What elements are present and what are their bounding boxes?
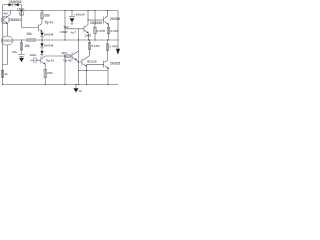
svg-text:47R: 47R bbox=[47, 71, 53, 75]
resistor R8 0.47R bbox=[108, 25, 110, 40]
resistor R4 10k bbox=[21, 40, 23, 54]
transistor Q7 2N3055 bbox=[104, 16, 108, 24]
resistor R3 560 bbox=[41, 11, 43, 24]
svg-text:0.47R: 0.47R bbox=[109, 44, 118, 48]
svg-text:4u7: 4u7 bbox=[71, 30, 76, 34]
transistor Q2 ellipse bbox=[1, 36, 13, 45]
wire Q9 emitter down bbox=[107, 69, 109, 85]
wire right border bbox=[117, 11, 119, 50]
wire base feed H2 bbox=[22, 27, 39, 29]
svg-text:2N3055: 2N3055 bbox=[90, 21, 102, 25]
wire Q2 bottom lead bbox=[3, 45, 8, 65]
wire x21.5 drop bbox=[21, 5, 23, 28]
diode D5 bbox=[40, 51, 43, 54]
wire bootstrap y28.8 bbox=[65, 28, 84, 30]
wire Q8 emitter down bbox=[86, 66, 88, 84]
transistor Q4 Tip 41 bbox=[41, 56, 45, 64]
resistor R5 47R bbox=[44, 65, 46, 85]
capacitor C1 box bbox=[20, 12, 24, 15]
wire y70.5 link bbox=[79, 70, 109, 72]
svg-text:4k7: 4k7 bbox=[3, 12, 8, 16]
transistor Q3 TIP41 bbox=[39, 23, 42, 31]
ground G2 0v bbox=[75, 85, 77, 89]
wire left border bbox=[2, 5, 4, 85]
wire VAS emitter bbox=[41, 31, 43, 34]
wire x65 lower bbox=[64, 56, 66, 85]
svg-text:1k: 1k bbox=[4, 72, 8, 76]
svg-text:BD139: BD139 bbox=[87, 60, 96, 64]
wire diode loop bbox=[3, 4, 22, 6]
transistor Q8 bbox=[79, 56, 90, 66]
wire Q9 base feed bbox=[87, 63, 104, 65]
resistor R11 0.47R bbox=[107, 40, 109, 60]
diode D1 bbox=[9, 3, 13, 6]
svg-text:1N4148: 1N4148 bbox=[44, 43, 54, 47]
diode D4 bbox=[40, 43, 43, 46]
svg-text:Tip 42: Tip 42 bbox=[63, 59, 72, 63]
svg-text:Tip 41: Tip 41 bbox=[46, 58, 55, 62]
capacitor C6 100uF bbox=[71, 11, 73, 17]
transistor Q9 2N3055 bbox=[104, 60, 108, 68]
capacitor C2 47u bbox=[18, 53, 25, 55]
wire bottom rail bbox=[3, 84, 119, 86]
svg-text:100uF: 100uF bbox=[76, 13, 85, 17]
resistor R10 0.47R bbox=[89, 40, 91, 56]
resistor R2 10k on mid rail bbox=[27, 39, 35, 41]
ground G1 bbox=[21, 57, 23, 58]
transistor Q6 bbox=[84, 25, 88, 33]
resistor R12 1k bbox=[2, 70, 4, 78]
node junction dots bbox=[21, 10, 22, 11]
transistor Q1 2N5551 bbox=[1, 16, 9, 24]
svg-text:100u: 100u bbox=[29, 53, 36, 57]
transistor Q5 Tip 42 bbox=[72, 51, 78, 60]
svg-text:100R: 100R bbox=[84, 33, 91, 37]
svg-text:2N3055: 2N3055 bbox=[110, 61, 120, 65]
svg-text:0.47R: 0.47R bbox=[110, 29, 119, 33]
wire x78.5 spine bbox=[78, 29, 80, 85]
svg-text:10k: 10k bbox=[26, 32, 32, 36]
wire output mid rail bbox=[13, 39, 118, 41]
wire x65 upper bbox=[64, 11, 66, 41]
svg-text:0.47R: 0.47R bbox=[97, 29, 106, 33]
wire Q7 base feed bbox=[88, 19, 104, 21]
diode D3 bbox=[40, 33, 43, 36]
svg-text:100R: 100R bbox=[60, 30, 68, 34]
output terminal arrow bbox=[116, 49, 120, 55]
diode D2 bbox=[15, 3, 19, 6]
wire top supply rail bbox=[3, 10, 119, 12]
wire Q1 emitter down bbox=[7, 24, 9, 36]
svg-text:1k4: 1k4 bbox=[63, 25, 68, 29]
resistor R9 0.47R bbox=[94, 11, 96, 41]
svg-text:2N3055: 2N3055 bbox=[2, 39, 13, 43]
svg-text:0v: 0v bbox=[79, 89, 83, 93]
svg-text:2N3055: 2N3055 bbox=[110, 17, 120, 21]
svg-text:1N4148: 1N4148 bbox=[44, 33, 54, 37]
svg-text:47u: 47u bbox=[12, 50, 17, 54]
svg-text:10k: 10k bbox=[24, 44, 30, 48]
svg-text:0.47R: 0.47R bbox=[91, 44, 100, 48]
svg-text:4R7: 4R7 bbox=[62, 51, 68, 55]
svg-text:560: 560 bbox=[44, 13, 50, 17]
svg-text:Tip 41: Tip 41 bbox=[44, 21, 53, 25]
resistor R6 4R7 bbox=[45, 55, 72, 57]
svg-text:10uF: 10uF bbox=[17, 7, 24, 11]
svg-text:2N5551: 2N5551 bbox=[9, 18, 22, 22]
